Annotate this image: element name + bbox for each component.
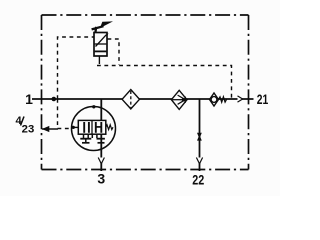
flow arrow at port 21 (open arrowhead) (238, 96, 243, 102)
orifice (restriction) on port 22 line (197, 133, 202, 141)
pilot line (dashed) from pressure switch right side down to outlet run (108, 39, 120, 65)
enclosure boundary bottom edge (42, 169, 249, 171)
spring on right of valve (106, 125, 113, 130)
filter F1 (diamond with dashed element) (122, 90, 139, 109)
pilot line (dashed) long run across to port 21 drop (97, 66, 232, 100)
port 23 line with filled arrow pointing out left (42, 128, 58, 130)
pilot actuator line on left (72, 126, 79, 128)
valve assembly housing (circle) (72, 107, 116, 151)
position 1: blocked (two bars) (83, 122, 85, 133)
enclosure boundary left edge (41, 15, 43, 170)
svg-text:23: 23 (22, 124, 35, 136)
enclosure boundary (dash-dot assembly border) top edge (42, 14, 249, 16)
subplate ports under valve: row of ticks (83, 134, 85, 138)
pilot line (dashed) from junction A down to port 23 tee and valve actuator (58, 99, 72, 129)
spring of check valve (219, 97, 227, 102)
2-position valve V1 inside housing (72, 120, 114, 142)
flow arrow at port 3 (open arrowhead down) (98, 158, 104, 164)
wire: branch down to port 22 (199, 99, 201, 171)
pilot line (dashed) from junction A up to pressure switch (58, 37, 95, 99)
junction dot on top of housing (92, 105, 95, 108)
junction dot on left of housing (actuator entry) (72, 126, 75, 129)
flow arrow at port 22 (open arrowhead down) (196, 158, 202, 164)
svg-text:22: 22 (192, 173, 204, 188)
enclosure boundary right edge (248, 15, 250, 170)
subplate bars (80, 138, 91, 140)
svg-text:21: 21 (257, 92, 269, 107)
svg-text:1: 1 (25, 91, 33, 107)
filter F2 with bypass check valve (diamond) (171, 90, 187, 109)
wire: branch down through valve assembly to port 3 (100, 99, 102, 171)
check valve C1 (ball in diamond with spring) (210, 93, 227, 106)
svg-text:3: 3 (97, 171, 105, 187)
wire: main supply line from port 1 to port 21 (32, 98, 254, 100)
lower stubs and bars (85, 140, 87, 143)
pressure switch S1 (92, 21, 113, 64)
position 2: open path (H) (95, 122, 97, 133)
junction dot A (main line / pilot tap) (52, 97, 57, 102)
